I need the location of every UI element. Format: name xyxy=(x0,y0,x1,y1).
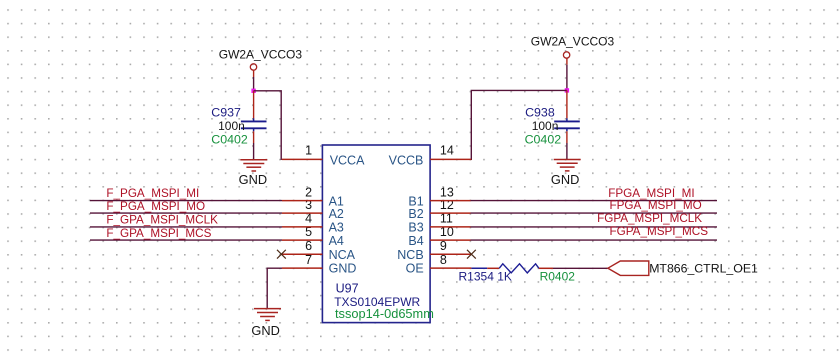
svg-text:OE: OE xyxy=(406,262,424,276)
svg-text:F_PGA_MSPI_MO: F_PGA_MSPI_MO xyxy=(106,200,205,213)
wire net F_GPA_MSPI_MCLK xyxy=(90,226,282,228)
pin 10 lead xyxy=(430,239,470,241)
svg-text:GND: GND xyxy=(329,262,357,276)
svg-text:B4: B4 xyxy=(408,234,423,248)
power port GW2A_VCCO3 (right) xyxy=(531,35,615,65)
svg-text:U97: U97 xyxy=(336,282,359,296)
svg-text:F_GPA_MSPI_MCLK: F_GPA_MSPI_MCLK xyxy=(106,214,218,227)
node junction left (VCCA net) xyxy=(251,89,255,93)
wire resistor to port xyxy=(553,267,608,269)
svg-text:100n: 100n xyxy=(218,119,245,133)
pin 2 lead xyxy=(282,200,322,202)
svg-text:A2: A2 xyxy=(329,207,344,221)
U97 pin numbers xyxy=(305,144,454,267)
svg-text:R1354 1K: R1354 1K xyxy=(459,269,512,283)
wire net FGPA_MSPI_MCS xyxy=(471,239,718,241)
svg-text:FPGA_MSPI_MO: FPGA_MSPI_MO xyxy=(610,199,702,212)
svg-text:FPGA_MSPI_MI: FPGA_MSPI_MI xyxy=(608,187,694,200)
wire net FPGA_MSPI_MO xyxy=(471,212,718,214)
pin 9 NCB lead xyxy=(430,253,471,255)
svg-text:R0402: R0402 xyxy=(540,269,576,283)
IC U97 body xyxy=(322,145,430,323)
svg-text:100n: 100n xyxy=(532,119,559,133)
pin 7 GND lead xyxy=(282,267,322,269)
svg-text:C0402: C0402 xyxy=(211,133,248,147)
wire net F_PGA_MSPI_MI xyxy=(90,200,282,202)
resistor R1354 xyxy=(459,264,576,284)
svg-text:C0402: C0402 xyxy=(525,133,562,147)
svg-text:GW2A_VCCO3: GW2A_VCCO3 xyxy=(531,35,615,49)
svg-text:VCCA: VCCA xyxy=(330,154,365,168)
pin 11 lead xyxy=(430,226,470,228)
wire power-right to junction xyxy=(566,65,568,91)
svg-text:FGPA_MSPI_MCLK: FGPA_MSPI_MCLK xyxy=(597,212,702,225)
wire net FGPA_MSPI_MCLK xyxy=(471,226,718,228)
svg-text:F_GPA_MSPI_MCS: F_GPA_MSPI_MCS xyxy=(106,227,211,240)
svg-text:GND: GND xyxy=(239,172,267,187)
wire junction to VCCB pin (left then down) xyxy=(471,90,567,160)
wire net FPGA_MSPI_MI xyxy=(471,200,718,202)
ground symbol (left cap) xyxy=(240,160,267,171)
capacitor C938 xyxy=(525,90,580,146)
svg-text:GND: GND xyxy=(251,323,279,338)
wire junction to VCCA pin (right then down) xyxy=(254,91,282,160)
svg-text:A4: A4 xyxy=(329,234,344,248)
svg-text:14: 14 xyxy=(440,144,454,158)
svg-text:VCCB: VCCB xyxy=(389,154,424,168)
U97 pin names xyxy=(329,154,424,276)
capacitor C937 xyxy=(211,91,266,147)
power port GW2A_VCCO3 (left) xyxy=(219,48,303,78)
ground symbol (U97 GND pin) xyxy=(254,309,281,321)
pin 12 lead xyxy=(430,212,470,214)
svg-text:F_PGA_MSPI_MI: F_PGA_MSPI_MI xyxy=(106,187,199,200)
svg-text:1: 1 xyxy=(305,144,312,158)
svg-text:6: 6 xyxy=(305,239,312,253)
svg-text:NCB: NCB xyxy=(397,248,423,262)
wire pin7 to ground xyxy=(267,268,282,308)
pin 3 lead xyxy=(282,212,322,214)
no-connect X on pin 6 xyxy=(277,250,286,259)
port MT866_CTRL_OE1 xyxy=(608,261,758,275)
svg-text:NCA: NCA xyxy=(329,248,356,262)
pin 6 NCA lead xyxy=(281,253,322,255)
svg-text:B2: B2 xyxy=(408,207,423,221)
svg-text:C937: C937 xyxy=(211,105,241,119)
svg-text:GW2A_VCCO3: GW2A_VCCO3 xyxy=(219,48,303,62)
wire cap to ground (left) xyxy=(253,143,255,160)
ground symbol (right cap) xyxy=(554,160,581,171)
svg-text:MT866_CTRL_OE1: MT866_CTRL_OE1 xyxy=(649,261,758,275)
svg-text:A3: A3 xyxy=(329,221,344,235)
svg-text:9: 9 xyxy=(440,239,447,253)
svg-text:GND: GND xyxy=(551,172,579,187)
wire power-left to junction xyxy=(253,77,255,92)
svg-text:7: 7 xyxy=(305,253,312,267)
pin 5 lead xyxy=(282,239,322,241)
pin 8 OE lead xyxy=(430,267,471,269)
node junction right (VCCB net) xyxy=(565,88,569,92)
pin 1 VCCA lead xyxy=(282,158,323,160)
svg-text:C938: C938 xyxy=(525,105,555,119)
pin 4 lead xyxy=(282,226,322,228)
wire cap to ground (right) xyxy=(566,143,568,160)
svg-text:B3: B3 xyxy=(408,221,423,235)
no-connect X on pin 9 xyxy=(467,250,476,259)
pin 14 VCCB lead xyxy=(430,158,471,160)
svg-text:8: 8 xyxy=(440,253,447,267)
svg-text:FGPA_MSPI_MCS: FGPA_MSPI_MCS xyxy=(610,225,709,238)
svg-text:tssop14-0d65mm: tssop14-0d65mm xyxy=(335,306,434,321)
wire net F_PGA_MSPI_MO xyxy=(90,212,282,214)
pin 13 lead xyxy=(430,200,470,202)
wire net F_GPA_MSPI_MCS xyxy=(90,239,282,241)
